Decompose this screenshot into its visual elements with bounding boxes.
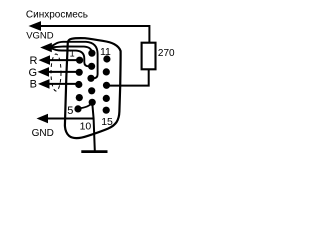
wire B to pin3 (48, 83, 79, 85)
pin 12 (103, 68, 110, 75)
ground symbol (81, 150, 107, 153)
svg-text:10: 10 (80, 121, 92, 133)
arrow sync out (29, 21, 42, 31)
arrow VGND (40, 43, 52, 53)
pin 5 (74, 105, 81, 112)
wire pin10 to ground (92, 102, 95, 150)
svg-text:VGND: VGND (26, 31, 54, 42)
wire resistor bottom to pin13 (107, 70, 149, 86)
pin 2 (76, 69, 83, 76)
arrow B (38, 79, 50, 89)
wire GND (46, 118, 94, 120)
resistor R1 (142, 43, 156, 70)
pin 6 (88, 50, 95, 57)
pin 10 (89, 99, 96, 106)
svg-text:15: 15 (101, 116, 113, 128)
pin 15 (103, 107, 110, 114)
wire sync horizontal (38, 26, 149, 43)
svg-text:B: B (30, 79, 37, 91)
svg-text:5: 5 (67, 105, 73, 117)
wire R to pin1 (48, 59, 80, 61)
svg-text:G: G (29, 67, 38, 79)
arrow R (39, 55, 51, 65)
svg-text:GND: GND (32, 128, 54, 139)
svg-text:R: R (30, 55, 38, 67)
pin 13 (103, 82, 110, 89)
connector shell outline DB15 (65, 38, 121, 138)
pin 1 (76, 57, 83, 64)
pin 9 (88, 87, 95, 94)
wire G to pin2 (47, 71, 79, 73)
arrow G (38, 67, 50, 77)
wire VGND branch to pin 7 (50, 48, 92, 66)
pin 4 (76, 94, 83, 101)
wire pin5 to pin10 (78, 103, 92, 109)
svg-text:11: 11 (100, 46, 111, 58)
wire VGND branch to pin 8 (50, 42, 98, 79)
pin 14 (103, 95, 110, 102)
wire VGND branch to pin 6 (49, 46, 92, 53)
pin 3 (75, 81, 82, 88)
pin 8 (87, 75, 94, 82)
svg-text:270: 270 (158, 48, 175, 59)
svg-text:Синхросмесь: Синхросмесь (26, 9, 88, 20)
arrow GND (37, 114, 49, 124)
cable group dashed ellipse (51, 54, 61, 91)
pin 11 (103, 55, 110, 62)
pin 7 (88, 63, 95, 70)
svg-text:1: 1 (70, 48, 75, 58)
